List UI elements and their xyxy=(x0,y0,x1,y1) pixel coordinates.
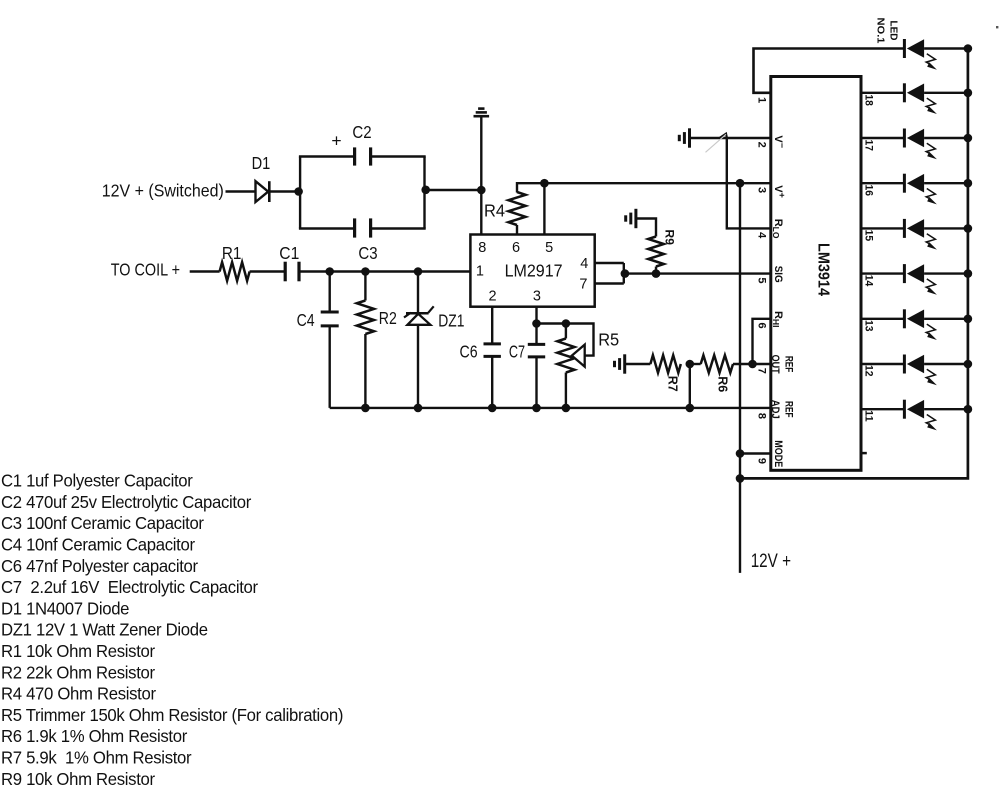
svg-text:DZ1 12V 1 Watt Zener Diode: DZ1 12V 1 Watt Zener Diode xyxy=(1,619,208,640)
svg-text:18: 18 xyxy=(863,94,875,106)
svg-text:3: 3 xyxy=(533,289,541,305)
wire LM3914 pin 12 stub xyxy=(861,363,904,365)
wire LED No.1 to bus xyxy=(924,47,968,49)
svg-text:R1: R1 xyxy=(222,243,242,263)
LED at pin 16 xyxy=(904,174,937,205)
junction node at C2/C3 block right xyxy=(421,186,430,195)
svg-text:R5: R5 xyxy=(598,329,619,349)
wire LM3914 pin 17 stub xyxy=(861,137,904,139)
svg-text:R7 5.9k 1% Ohm Resistor: R7 5.9k 1% Ohm Resistor xyxy=(1,747,192,768)
ground (R9) xyxy=(626,209,636,228)
junction node MODE/12V xyxy=(736,449,745,458)
junction node R5 top xyxy=(562,319,571,328)
ground (LM3914 pin 2) xyxy=(679,128,689,147)
wire R5 top lead xyxy=(565,324,567,339)
svg-text:R2 22k Ohm Resistor: R2 22k Ohm Resistor xyxy=(1,662,155,683)
svg-text:15: 15 xyxy=(863,230,875,242)
wire R2 bottom lead xyxy=(364,334,366,408)
wire ground drop to pin8 node xyxy=(480,116,482,190)
trimmer R5 wiper arrow xyxy=(572,345,585,367)
wire LM2917 pin 4 stub xyxy=(595,262,624,264)
resistor R9 xyxy=(648,237,664,267)
svg-text:REFOUT: REFOUT xyxy=(769,355,795,374)
junction node R7/R6 xyxy=(686,360,695,369)
svg-text:8: 8 xyxy=(756,413,768,419)
svg-text:LM3914: LM3914 xyxy=(814,243,831,296)
wire R2 top lead xyxy=(364,272,366,301)
svg-text:14: 14 xyxy=(863,275,875,287)
svg-text:6: 6 xyxy=(512,240,520,256)
LED at pin 13 xyxy=(904,309,937,340)
wire node to R6 xyxy=(690,363,701,365)
capacitor C1 xyxy=(285,262,299,282)
svg-text:9: 9 xyxy=(756,458,768,464)
wire LM3914 pin 15 stub xyxy=(861,227,904,229)
junction node bus row 16 xyxy=(964,179,973,188)
wire SIG line to LM3914 pin 5 xyxy=(624,272,771,274)
wire LM2917 pin 8 xyxy=(480,190,482,235)
wire RHI bracket xyxy=(753,319,771,364)
wire D1 to C2/C3 block xyxy=(268,190,300,192)
resistor R1 xyxy=(220,262,250,281)
svg-text:R7: R7 xyxy=(665,376,679,392)
wire LED pin 13 to bus xyxy=(924,318,968,320)
capacitor C3 xyxy=(299,218,426,237)
svg-text:7: 7 xyxy=(756,368,768,374)
svg-text:REFADJ: REFADJ xyxy=(769,400,795,419)
trimmer resistor R5 xyxy=(557,339,574,373)
svg-text:R9: R9 xyxy=(663,230,677,246)
wire LM2917 pin 3 lead xyxy=(535,307,537,345)
junction node bus row 15 xyxy=(964,224,973,233)
wire C4 top lead xyxy=(329,272,331,313)
svg-text:R6 1.9k 1% Ohm Resistor: R6 1.9k 1% Ohm Resistor xyxy=(1,726,187,747)
svg-text:C3 100nf Ceramic Capacitor: C3 100nf Ceramic Capacitor xyxy=(1,513,204,534)
wire C4 bottom lead xyxy=(329,326,331,408)
wire pin3 node to R5 top xyxy=(537,322,566,324)
wire R4 bottom to pin 6 xyxy=(516,225,518,235)
svg-text:C3: C3 xyxy=(358,243,377,263)
svg-text:6: 6 xyxy=(756,323,768,329)
svg-text:C6 47nf Polyester capacitor: C6 47nf Polyester capacitor xyxy=(1,555,198,576)
svg-text:2: 2 xyxy=(489,289,497,305)
svg-text:16: 16 xyxy=(863,185,875,197)
svg-text:8: 8 xyxy=(478,240,486,256)
wire V+ rail to LM3914 pin 3 xyxy=(544,182,770,184)
svg-text:12V +: 12V + xyxy=(751,550,791,572)
wire LM3914 pin 13 stub xyxy=(861,318,904,320)
svg-text:1: 1 xyxy=(756,97,768,103)
svg-text:D1 1N4007 Diode: D1 1N4007 Diode xyxy=(1,598,129,619)
svg-text:SIG: SIG xyxy=(772,266,784,283)
wire LM2917 pin 2 lead xyxy=(491,307,493,344)
svg-text:12V + (Switched): 12V + (Switched) xyxy=(102,181,224,201)
wire C1 to LM2917 pin 1 xyxy=(299,270,470,272)
wire LED pin 12 to bus xyxy=(924,363,968,365)
wire ground to R7 xyxy=(626,363,651,365)
svg-text:LM2917: LM2917 xyxy=(505,260,563,280)
wire V-/RLO drop xyxy=(727,138,771,228)
wire LM3914 pin 11 stub xyxy=(861,408,904,410)
LED at pin 11 xyxy=(904,400,937,431)
svg-text:R4 470 Ohm Resistor: R4 470 Ohm Resistor xyxy=(1,683,156,704)
wire R7/R6 node drop xyxy=(689,364,691,408)
wire C6 bottom lead xyxy=(491,356,493,408)
svg-text:5: 5 xyxy=(756,277,768,283)
junction node C6 bottom xyxy=(488,404,497,413)
IC U1 LM2917 body xyxy=(470,235,594,307)
junction node bus row 12 xyxy=(964,360,973,369)
svg-text:R1 10k Ohm Resistor: R1 10k Ohm Resistor xyxy=(1,640,155,661)
wire R6 to LM3914 pin 7 xyxy=(733,363,771,365)
svg-text:C1 1uf Polyester Capacitor: C1 1uf Polyester Capacitor xyxy=(1,470,193,491)
svg-text:MODE: MODE xyxy=(772,440,784,467)
svg-text:C4: C4 xyxy=(297,310,315,330)
wire pin4/7 bracket xyxy=(623,263,625,284)
svg-text:1: 1 xyxy=(476,264,484,280)
wire R1 to C1 xyxy=(250,270,286,272)
wire LED pin 14 to bus xyxy=(924,272,968,274)
wire TO COIL to R1 xyxy=(190,270,220,272)
junction node bus top xyxy=(964,44,973,53)
junction node ground/pin8 xyxy=(477,186,486,195)
svg-text:R4: R4 xyxy=(484,201,505,221)
svg-text:13: 13 xyxy=(863,320,875,332)
resistor R4 xyxy=(508,192,525,225)
wire LM3914 pin 14 stub xyxy=(861,272,904,274)
parts list text block xyxy=(1,470,343,789)
wire 12V riser xyxy=(739,183,741,573)
junction node bus row 18 xyxy=(964,89,973,98)
junction node C4 top xyxy=(325,267,334,276)
speck artifact top right xyxy=(996,26,998,28)
zener diode DZ1 xyxy=(404,306,434,325)
capacitor C7 xyxy=(528,344,545,357)
wire LED anode bus xyxy=(740,49,968,479)
LED at pin 14 xyxy=(904,264,937,295)
junction node on bottom bus xyxy=(686,404,695,413)
wire R5 wiper bracket xyxy=(566,324,594,356)
capacitor C2 xyxy=(299,147,426,165)
junction node R2 bottom xyxy=(361,404,370,413)
junction node R5 bottom xyxy=(562,404,571,413)
junction node pin3/C7/R5 xyxy=(532,319,541,328)
junction node RHI bracket/pin7 xyxy=(748,360,757,369)
junction node bus row 11 xyxy=(964,405,973,414)
resistor R2 xyxy=(357,301,374,335)
svg-text:C6: C6 xyxy=(460,342,478,362)
resistor R6 xyxy=(701,355,733,373)
resistor R7 xyxy=(650,355,680,373)
wire LED pin 16 to bus xyxy=(924,182,968,184)
wire R4 top elbow xyxy=(517,183,544,192)
wire LM3914 pin 18 stub xyxy=(861,92,904,94)
hairline artifact xyxy=(706,134,727,152)
svg-text:R5 Trimmer 150k Ohm Resistor (: R5 Trimmer 150k Ohm Resistor (For calibr… xyxy=(1,704,343,725)
IC U2 LM3914 body xyxy=(771,77,861,471)
bottom common bus wire xyxy=(330,407,771,409)
wire 12V+ input to D1 xyxy=(226,190,256,192)
wire LED pin 17 to bus xyxy=(924,137,968,139)
wire DZ1 cathode lead xyxy=(417,272,419,314)
svg-text:R9 10k Ohm Resistor: R9 10k Ohm Resistor xyxy=(1,768,155,789)
wire ground to LM3914 pin 2 xyxy=(691,137,771,139)
svg-text:TO COIL +: TO COIL + xyxy=(111,259,180,279)
svg-text:C2 470uf 25v Electrolytic Capa: C2 470uf 25v Electrolytic Capacitor xyxy=(1,491,251,512)
junction node bus row 17 xyxy=(964,134,973,143)
svg-text:C4 10nf Ceramic Capacitor: C4 10nf Ceramic Capacitor xyxy=(1,534,195,555)
svg-text:17: 17 xyxy=(863,139,875,151)
svg-text:R2: R2 xyxy=(379,308,397,328)
wire pin 5 drop xyxy=(543,183,545,234)
wire R9 ground elbow xyxy=(636,219,656,237)
junction node DZ1 bottom xyxy=(414,404,423,413)
junction node R2 top xyxy=(361,267,370,276)
junction node R9/SIG xyxy=(652,269,661,278)
svg-text:+: + xyxy=(331,131,341,151)
svg-text:11: 11 xyxy=(863,410,875,422)
wire C2/C3 block left side xyxy=(299,157,301,229)
LED at pin 17 xyxy=(904,129,937,160)
LM3914 pin 10 stub xyxy=(861,452,867,455)
ground (top, above LM2917 pin 8) xyxy=(474,109,490,117)
wire kink artifact at V- bend xyxy=(720,134,727,138)
junction node C7 bottom xyxy=(532,404,541,413)
svg-text:5: 5 xyxy=(545,240,553,256)
wire C2/C3 block right side xyxy=(423,157,425,229)
LED at pin 15 xyxy=(904,219,937,250)
wire LM3914 pin 16 stub xyxy=(861,182,904,184)
svg-text:C2: C2 xyxy=(352,122,371,142)
wire MODE pin 9 xyxy=(740,452,771,454)
LED No.1 xyxy=(904,39,937,70)
svg-text:2: 2 xyxy=(756,142,768,148)
capacitor C6 xyxy=(484,344,501,357)
svg-text:DZ1: DZ1 xyxy=(438,310,464,330)
svg-text:12: 12 xyxy=(863,365,875,377)
junction node bus row 13 xyxy=(964,315,973,324)
wire block to ground junction xyxy=(426,189,482,191)
LED at pin 18 xyxy=(904,83,937,114)
LED at pin 12 xyxy=(904,355,937,386)
svg-text:C1: C1 xyxy=(279,243,299,263)
wire R9 bottom lead xyxy=(655,267,657,274)
wire LED pin 18 to bus xyxy=(924,92,968,94)
svg-text:4: 4 xyxy=(580,256,588,272)
junction node V+ rail / 12V riser xyxy=(736,179,745,188)
junction node LED return/12V xyxy=(736,474,745,483)
svg-text:D1: D1 xyxy=(252,153,271,173)
wire R5 bottom lead xyxy=(565,373,567,408)
wire LM3914 pin 1 elbow xyxy=(754,49,905,93)
svg-text:4: 4 xyxy=(756,232,768,239)
junction node bus row 14 xyxy=(964,269,973,278)
svg-text:C7: C7 xyxy=(509,342,525,362)
junction node at C2/C3 block left xyxy=(294,187,303,196)
junction node DZ1 top xyxy=(414,267,423,276)
wire LED pin 15 to bus xyxy=(924,227,968,229)
svg-text:C7 2.2uf 16V Electrolytic Ca: C7 2.2uf 16V Electrolytic Capacitor xyxy=(1,577,258,598)
junction node R4/pin5/V+ rail xyxy=(540,179,549,188)
wire DZ1 anode lead xyxy=(417,325,419,408)
wire LM2917 pin 7 stub xyxy=(595,282,624,284)
svg-text:R6: R6 xyxy=(715,376,729,392)
wire LED pin 11 to bus xyxy=(924,408,968,410)
capacitor C4 xyxy=(321,312,339,326)
svg-text:LEDNO.1: LEDNO.1 xyxy=(875,18,899,44)
svg-text:7: 7 xyxy=(579,277,587,293)
wire C7 bottom lead xyxy=(535,357,537,408)
ground (R7) xyxy=(615,354,625,373)
svg-text:3: 3 xyxy=(756,187,768,193)
junction node pin4/7 to SIG xyxy=(621,269,630,278)
diode D1 xyxy=(256,181,270,202)
